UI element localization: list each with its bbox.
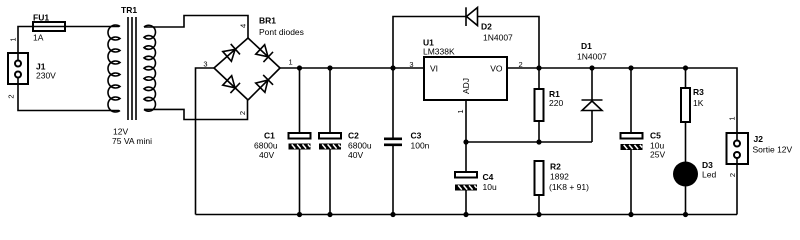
svg-text:BR1: BR1 — [259, 16, 276, 26]
junction C1 top — [297, 65, 302, 70]
wire J1 pin1 to fuse FU1 — [18, 27, 33, 61]
svg-text:(1K8 + 91): (1K8 + 91) — [549, 182, 589, 192]
transformer TR1 secondary coil — [144, 25, 155, 111]
junction C3 bottom — [390, 212, 395, 217]
transformer TR1 primary coil — [108, 25, 120, 112]
svg-text:6800u: 6800u — [348, 141, 372, 151]
bridge diode 3-2 — [222, 75, 240, 93]
svg-text:2: 2 — [238, 111, 247, 115]
junction R1 top — [536, 65, 541, 70]
junction R3 top — [683, 65, 688, 70]
svg-text:6800u: 6800u — [254, 141, 278, 151]
regulator U1 box — [424, 57, 507, 100]
svg-text:1A: 1A — [33, 33, 44, 43]
capacitor C2 — [319, 68, 341, 215]
junction C4 bottom — [463, 212, 468, 217]
svg-text:VI: VI — [430, 64, 438, 74]
wire secondary bottom to bridge node 2 — [144, 100, 248, 120]
ground rail (bottom) — [196, 214, 738, 216]
junction C2 bottom — [327, 212, 332, 217]
bridge BR1 diamond edges — [214, 38, 280, 100]
svg-text:TR1: TR1 — [121, 5, 137, 15]
capacitor C4 — [455, 142, 477, 215]
resistor R2 — [535, 161, 544, 215]
svg-text:75 VA mini: 75 VA mini — [112, 136, 152, 146]
svg-text:C3: C3 — [411, 131, 422, 141]
bridge diode 2-1 — [255, 75, 273, 93]
svg-text:C5: C5 — [650, 131, 661, 141]
wire J1 pin2 to TR1 primary bottom — [18, 78, 119, 111]
svg-text:Pont diodes: Pont diodes — [259, 27, 304, 37]
svg-text:1: 1 — [9, 37, 18, 41]
svg-text:1K: 1K — [693, 98, 704, 108]
svg-text:100n: 100n — [411, 141, 430, 151]
svg-text:J2: J2 — [754, 134, 764, 144]
junction C1 bottom — [297, 212, 302, 217]
positive rail bridge to U1 VI — [280, 67, 424, 69]
svg-text:ADJ: ADJ — [461, 78, 471, 94]
VO output rail — [507, 68, 737, 141]
svg-text:1: 1 — [728, 116, 737, 120]
capacitor C3 — [384, 68, 402, 215]
svg-text:12V: 12V — [113, 127, 128, 137]
wire C3 junction up to D2 — [393, 17, 466, 69]
junction D1 top — [589, 65, 594, 70]
svg-text:1N4007: 1N4007 — [577, 52, 607, 62]
junction C4 top — [463, 139, 468, 144]
svg-text:R3: R3 — [693, 87, 704, 97]
svg-text:40V: 40V — [259, 150, 274, 160]
capacitor C1 — [289, 68, 311, 215]
svg-text:C4: C4 — [483, 172, 494, 182]
svg-text:FU1: FU1 — [33, 13, 49, 23]
LED D3 — [673, 162, 698, 215]
bridge diode 4-1 — [255, 44, 273, 62]
svg-text:230V: 230V — [36, 71, 56, 81]
svg-text:D3: D3 — [702, 160, 713, 170]
junction C2 top — [327, 65, 332, 70]
svg-text:LM338K: LM338K — [423, 47, 455, 57]
svg-text:3: 3 — [409, 60, 413, 69]
svg-text:1: 1 — [456, 109, 465, 113]
junction C5 top — [628, 65, 633, 70]
svg-text:2: 2 — [728, 173, 737, 177]
svg-text:10u: 10u — [483, 182, 497, 192]
transformer TR1 core — [128, 17, 136, 120]
connector J1 — [8, 53, 28, 84]
svg-text:220: 220 — [549, 98, 563, 108]
svg-text:25V: 25V — [650, 150, 665, 160]
ADJ node wire — [466, 141, 592, 143]
diode D2 — [466, 7, 478, 26]
svg-text:Sortie 12V: Sortie 12V — [753, 145, 793, 155]
svg-text:C1: C1 — [264, 131, 275, 141]
resistor R3 — [681, 68, 690, 162]
wire fuse to TR1 primary top — [65, 26, 119, 28]
wire U1 ADJ down — [465, 100, 467, 142]
svg-text:Led: Led — [702, 170, 716, 180]
svg-text:3: 3 — [203, 60, 207, 69]
junction C3 top — [390, 65, 395, 70]
svg-text:VO: VO — [490, 64, 503, 74]
svg-text:1N4007: 1N4007 — [483, 33, 513, 43]
junction D3 bottom — [683, 212, 688, 217]
wire bridge node 3 to ground rail — [196, 68, 215, 215]
connector J2 — [727, 133, 749, 164]
wire secondary top to bridge node 4 — [144, 16, 248, 39]
svg-text:1: 1 — [289, 58, 293, 67]
fuse FU1 — [33, 22, 65, 31]
junction R2 bottom — [536, 212, 541, 217]
junction C5 bottom — [628, 212, 633, 217]
junction R2 top — [536, 139, 541, 144]
svg-text:4: 4 — [239, 24, 248, 28]
svg-text:2: 2 — [7, 94, 16, 98]
bridge diode 3-4 — [222, 44, 240, 62]
svg-text:40V: 40V — [348, 150, 363, 160]
wire J2 pin2 to ground rail — [736, 158, 738, 215]
svg-text:C2: C2 — [348, 131, 359, 141]
svg-text:1892: 1892 — [550, 172, 569, 182]
diode D1 — [582, 68, 603, 142]
svg-text:D2: D2 — [481, 22, 492, 32]
wire D2 to VO rail — [478, 17, 540, 69]
capacitor C5 — [621, 68, 643, 215]
svg-text:D1: D1 — [581, 41, 592, 51]
svg-text:R2: R2 — [550, 162, 561, 172]
resistor R1 — [535, 68, 544, 142]
